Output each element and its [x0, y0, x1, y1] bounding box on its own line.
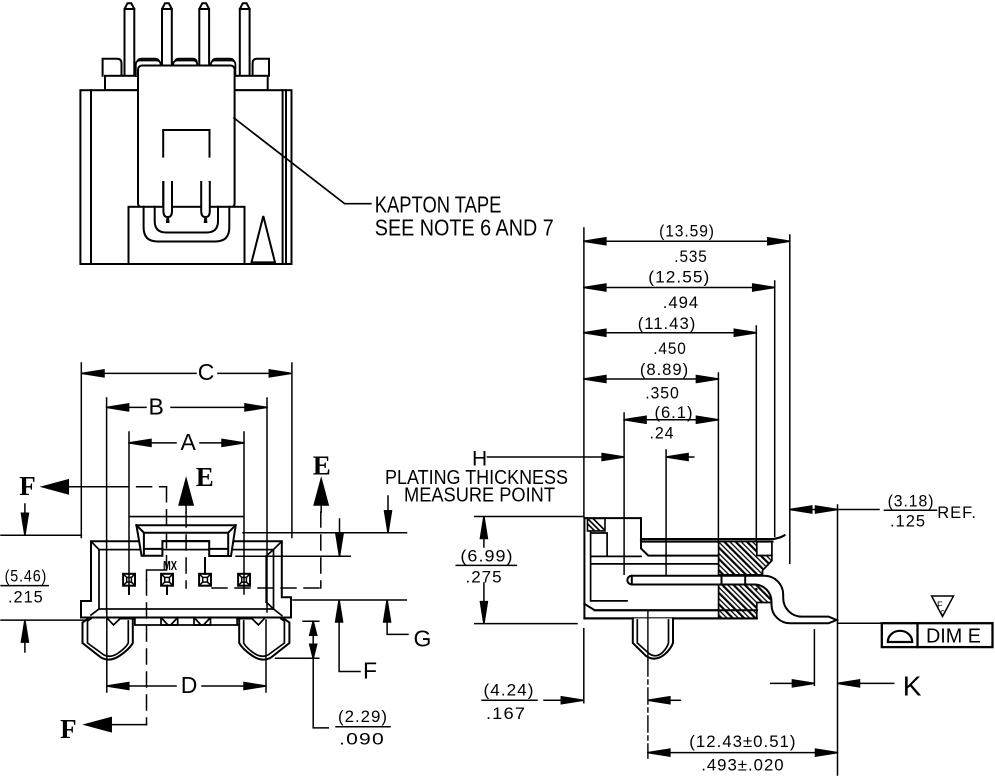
bottom tray (top view): [129, 207, 245, 264]
SIDE VIEW GROUP: [456, 222, 992, 775]
svg-text:.215: .215: [8, 588, 44, 607]
svg-text:F: F: [60, 714, 77, 744]
contact pin 1 box (front view): [123, 574, 135, 594]
svg-text:E: E: [313, 451, 331, 481]
notch right edge above bend: [771, 542, 773, 556]
svg-text:F: F: [19, 471, 36, 501]
svg-text:.450: .450: [653, 339, 687, 358]
svg-text:C: C: [198, 359, 215, 385]
note flag triangle: [932, 596, 954, 617]
dimension (11.43)/.450: [584, 314, 756, 556]
connector body outline (front view): [81, 541, 291, 617]
svg-text:.24: .24: [649, 424, 674, 443]
svg-text:.350: .350: [645, 384, 680, 403]
dimension (12.55)/.494: [584, 268, 775, 537]
svg-text:(6.99): (6.99): [460, 547, 513, 566]
H leader and plating note: [385, 447, 694, 506]
hatched section block upper: [719, 542, 772, 575]
kapton tape over ridge (side view) with end curl: [641, 535, 785, 541]
svg-text:(13.59): (13.59): [659, 222, 715, 241]
section arrow E (right): [313, 451, 331, 588]
svg-text:F: F: [363, 658, 377, 684]
datum plane line above front view: [130, 516, 243, 518]
solder tab 1 (front view bottom): [161, 618, 178, 626]
kapton tape rectangle (top view center): [138, 66, 235, 208]
section arrow F (top): [19, 471, 166, 725]
solder tab 2 (front view bottom): [194, 618, 211, 626]
dimension B: [107, 394, 267, 612]
bottom lip line (front view): [135, 624, 240, 626]
contact pin with right-angle bend (side view): [627, 576, 836, 624]
svg-text:.125: .125: [890, 512, 926, 531]
dimension K: [771, 630, 922, 702]
dimension G: [243, 496, 431, 651]
svg-text:(2.29): (2.29): [338, 707, 388, 726]
svg-text:(8.89): (8.89): [640, 360, 689, 379]
contact pin 4 box (front view): [238, 574, 250, 586]
svg-text:.275: .275: [466, 568, 503, 587]
svg-text:.494: .494: [663, 293, 699, 312]
peg centerline (side view): [647, 611, 649, 758]
svg-text:B: B: [149, 394, 164, 420]
dimension (8.89)/.350: [584, 360, 719, 542]
svg-text:.167: .167: [486, 704, 526, 723]
svg-text:G: G: [414, 625, 432, 651]
polarity triangle mark (top view): [252, 216, 276, 262]
leader line to kapton tape note: [234, 118, 371, 204]
dimension (3.18)/.125 REF.: [790, 492, 977, 775]
pin 4 (top view): [240, 3, 250, 74]
housing upper band (top view): [105, 76, 268, 90]
mating cap (front view top): [136, 525, 235, 556]
dimension (13.59)/.535: [584, 222, 790, 564]
svg-text:.090: .090: [339, 730, 385, 749]
housing shoulder row (top view): [103, 59, 269, 76]
dimension C: [81, 359, 292, 537]
housing outline (side view): [584, 518, 756, 618]
dimension D: [107, 611, 266, 698]
svg-text:SEE NOTE 6 AND 7: SEE NOTE 6 AND 7: [375, 214, 554, 240]
svg-text:c: c: [941, 608, 945, 617]
svg-text:.493±.020: .493±.020: [701, 756, 784, 775]
fitting nail peg right (front view): [237, 619, 289, 660]
dimension (2.29)/.090: [276, 621, 390, 748]
svg-text:(5.46): (5.46): [5, 567, 48, 586]
DIM E feature control frame box: [882, 623, 993, 647]
body inner bevel frame (front view): [91, 541, 282, 615]
section arrow F (bottom): [60, 714, 146, 744]
svg-text:(12.55): (12.55): [648, 268, 710, 287]
contact pin 2 box (front view): [161, 574, 173, 594]
seating plane baseline to DIM E box: [838, 622, 882, 624]
svg-text:MEASURE POINT: MEASURE POINT: [404, 485, 555, 507]
pin 3 (top view): [199, 3, 209, 74]
svg-text:A: A: [181, 429, 197, 455]
svg-text:D: D: [181, 672, 198, 698]
svg-text:E: E: [196, 462, 214, 492]
dimension (5.46)/.215: [1, 504, 86, 652]
dimension A: [129, 429, 244, 594]
wall humps between pins (top view): [136, 61, 236, 77]
dimension (12.43±0.51)/.493±.020: [648, 732, 838, 775]
H measure-point extension line: [665, 450, 667, 574]
housing bottom shelf lines across section: [584, 610, 756, 618]
svg-text:.535: .535: [674, 247, 707, 266]
svg-text:(12.43±0.51): (12.43±0.51): [689, 732, 796, 751]
pin 2 (top view): [162, 3, 172, 74]
hatched section block lower: [719, 585, 772, 619]
latch bracket inside tape (top view): [163, 130, 209, 206]
svg-text:K: K: [903, 670, 922, 701]
svg-text:(4.24): (4.24): [484, 681, 535, 700]
kapton tape cross-section (side view top left, hatched): [588, 519, 606, 531]
TOP VIEW GROUP: [80, 3, 553, 264]
svg-text:(11.43): (11.43): [638, 314, 697, 333]
fitting nail peg left (front view): [83, 619, 135, 660]
svg-text:DIM E: DIM E: [926, 626, 981, 648]
contact pin 3 box (front view): [199, 558, 211, 586]
dimension F (right side): [236, 519, 377, 684]
dimension (6.1)/.24: [624, 403, 718, 574]
FRONT VIEW GROUP: [1, 359, 694, 748]
housing main body outline (top view): [80, 90, 291, 264]
svg-text:(6.1): (6.1): [654, 403, 693, 422]
inner contact pin 3 (top view, bullet): [201, 182, 210, 222]
svg-text:REF.: REF.: [937, 503, 977, 522]
fitting nail peg (side view): [633, 618, 673, 658]
dimension (4.24)/.167: [482, 629, 680, 723]
dimension (6.99)/.275: [456, 517, 584, 624]
pin 1 (top view, leftmost square post): [125, 3, 135, 74]
section arrow E (left): [179, 462, 321, 588]
svg-text:(3.18): (3.18): [888, 492, 935, 511]
inner contact pin 2 (top view, bullet): [163, 182, 172, 222]
